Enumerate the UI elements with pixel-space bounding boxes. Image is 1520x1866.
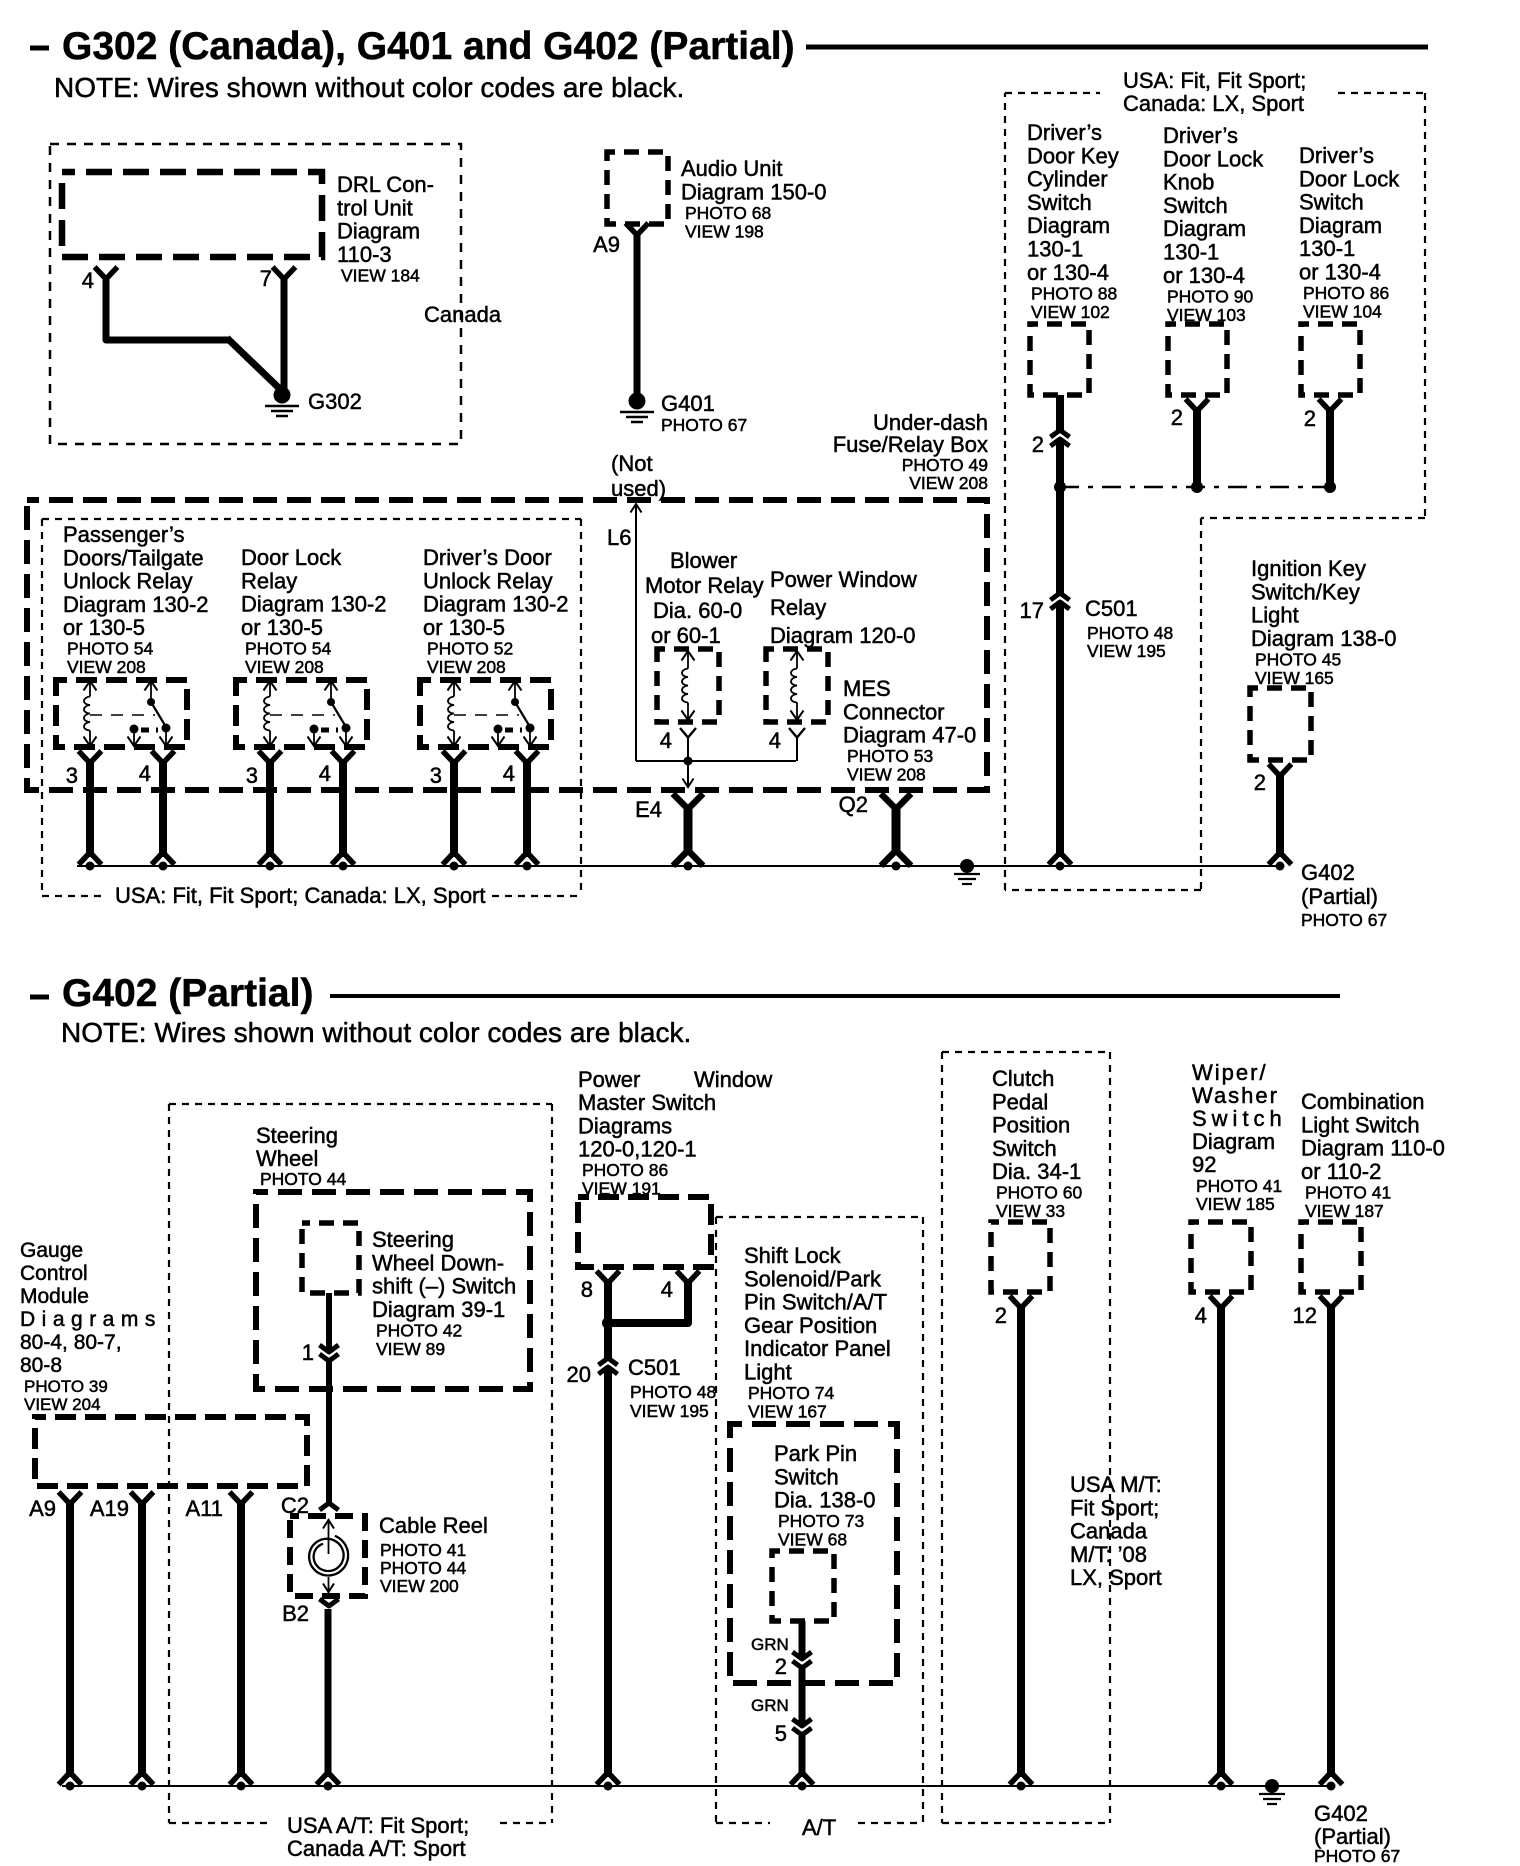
junction bottom bus A9 (66, 1782, 75, 1791)
svg-text:shift (–) Switch: shift (–) Switch (372, 1274, 516, 1299)
wire L6 from box top to blower junction (631, 504, 797, 761)
connector E4 fork and wire (675, 796, 701, 863)
svg-text:PHOTO 67: PHOTO 67 (1301, 910, 1387, 930)
wire wiper to bus (1212, 1304, 1231, 1783)
svg-text:PHOTO 45: PHOTO 45 (1255, 649, 1341, 669)
junction bottom bus park pin (798, 1782, 807, 1791)
driver's door key cylinder switch label (1027, 120, 1119, 322)
not used label (611, 451, 666, 501)
svg-text:PHOTO 86: PHOTO 86 (582, 1160, 668, 1180)
svg-text:PHOTO 39: PHOTO 39 (24, 1377, 108, 1396)
svg-text:Driver’s Door: Driver’s Door (423, 545, 552, 570)
wire C501 17 down to bus (1056, 487, 1064, 857)
steering wheel box (256, 1192, 530, 1389)
note wires black (top) (54, 72, 684, 103)
svg-text:LX, Sport: LX, Sport (1070, 1565, 1162, 1590)
svg-text:4: 4 (139, 761, 151, 786)
gauge control module U3 box (35, 1417, 307, 1486)
svg-text:Q2: Q2 (839, 792, 868, 817)
svg-text:Wiper/: Wiper/ (1192, 1060, 1268, 1085)
svg-text:Solenoid/Park: Solenoid/Park (744, 1266, 882, 1291)
svg-text:A9: A9 (593, 232, 620, 257)
junction master switch wires (602, 1317, 614, 1329)
svg-text:4: 4 (769, 728, 781, 753)
passenger's doors/tailgate unlock relay K1 (56, 680, 187, 747)
svg-text:Wheel Down-: Wheel Down- (372, 1250, 504, 1275)
svg-text:Diagram 47-0: Diagram 47-0 (843, 723, 976, 748)
wire downshift pin1 down (326, 1293, 332, 1504)
svg-text:PHOTO 52: PHOTO 52 (427, 638, 513, 658)
svg-text:VIEW 208: VIEW 208 (909, 473, 988, 493)
USA Fit Sport header (top right) (1123, 68, 1306, 116)
ground G302 (265, 387, 299, 417)
steering wheel downshift switch label (372, 1227, 516, 1359)
svg-text:PHOTO 68: PHOTO 68 (685, 203, 771, 223)
svg-text:Diagram: Diagram (1163, 216, 1246, 241)
dashed region top-right door switches (1005, 93, 1425, 890)
svg-text:Canada: LX, Sport: Canada: LX, Sport (1123, 91, 1304, 116)
svg-text:PHOTO 67: PHOTO 67 (1314, 1846, 1400, 1866)
pin 4 fork master switch (679, 1273, 698, 1282)
blower motor relay K4 label (645, 548, 764, 648)
svg-text:4: 4 (503, 761, 515, 786)
svg-text:4: 4 (661, 1277, 673, 1302)
junction bottom bus clutch (1017, 1782, 1026, 1791)
cable reel internal wire (323, 1519, 334, 1593)
steering wheel downshift switch S5 box (302, 1223, 359, 1293)
svg-text:Diagram: Diagram (1299, 213, 1382, 238)
junction bottom bus wiper (1217, 1782, 1226, 1791)
svg-text:VIEW 68: VIEW 68 (778, 1530, 847, 1550)
svg-text:120-0,120-1: 120-0,120-1 (578, 1137, 697, 1162)
fork at bus A9 (61, 1774, 80, 1783)
junction blower/L6 (684, 757, 693, 766)
svg-text:VIEW 165: VIEW 165 (1255, 668, 1334, 688)
svg-text:or 130-5: or 130-5 (241, 615, 323, 640)
fork at bus A19 (133, 1774, 152, 1783)
connector C501 label (bottom) (628, 1355, 716, 1421)
svg-text:2: 2 (775, 1654, 787, 1679)
svg-text:M/T: ’08: M/T: ’08 (1070, 1542, 1147, 1567)
svg-text:Diagrams: Diagrams (20, 1308, 162, 1331)
svg-text:Shift Lock: Shift Lock (744, 1243, 842, 1268)
svg-text:Switch: Switch (1163, 193, 1228, 218)
svg-text:G302: G302 (308, 389, 362, 414)
ground symbol on top bus (954, 859, 980, 884)
svg-text:3: 3 (66, 763, 78, 788)
svg-text:PHOTO 60: PHOTO 60 (996, 1183, 1083, 1203)
svg-text:Power: Power (578, 1067, 640, 1092)
svg-text:VIEW 103: VIEW 103 (1167, 305, 1246, 325)
svg-text:Connector: Connector (843, 699, 945, 724)
svg-text:4: 4 (1195, 1303, 1207, 1328)
pin 4 fork relay K1 (154, 753, 173, 762)
fork at bus relay K2 pin3 (261, 854, 280, 863)
svg-text:Diagram 120-0: Diagram 120-0 (770, 623, 916, 648)
MES connector label (843, 676, 976, 785)
pin 4 fork wiper (1212, 1298, 1231, 1307)
svg-text:or 130-4: or 130-4 (1027, 260, 1109, 285)
note wires black (bottom) (61, 1017, 691, 1048)
pin 5 label park pin (775, 1721, 787, 1746)
svg-text:USA: Fit, Fit Sport;: USA: Fit, Fit Sport; (1123, 68, 1306, 93)
node E4 label (635, 797, 662, 822)
svg-text:2: 2 (1304, 406, 1316, 431)
svg-text:VIEW 204: VIEW 204 (24, 1395, 101, 1414)
svg-text:Dia. 138-0: Dia. 138-0 (774, 1488, 876, 1513)
cable reel label (379, 1513, 488, 1596)
svg-text:Indicator Panel: Indicator Panel (744, 1336, 891, 1361)
svg-text:or 130-4: or 130-4 (1163, 263, 1245, 288)
svg-text:Diagram 150-0: Diagram 150-0 (681, 179, 827, 204)
svg-text:PHOTO 73: PHOTO 73 (778, 1511, 864, 1531)
svg-text:2: 2 (995, 1303, 1007, 1328)
svg-text:1: 1 (302, 1340, 314, 1365)
junction bottom bus A19 (138, 1782, 147, 1791)
Canada option dashed box (50, 144, 461, 444)
svg-text:5: 5 (775, 1721, 787, 1746)
wire DRL pin4 to G302 (106, 275, 281, 390)
pin 1 connector chevron (downshift) (320, 1345, 339, 1361)
pin 2 connector chevron (key cylinder) (1032, 430, 1070, 457)
svg-text:Driver’s: Driver’s (1163, 123, 1238, 148)
svg-text:PHOTO 54: PHOTO 54 (67, 639, 154, 659)
svg-text:VIEW 198: VIEW 198 (685, 221, 764, 241)
fork at bus relay K3 pin3 (445, 854, 464, 863)
svg-text:Master Switch: Master Switch (578, 1090, 716, 1115)
wire door lock switch pin2 down (1326, 407, 1334, 483)
power window master switch S6 box (578, 1197, 711, 1267)
svg-text:B2: B2 (282, 1601, 309, 1626)
fork at bus relay K3 pin4 (518, 854, 537, 863)
svg-text:Unlock Relay: Unlock Relay (63, 569, 193, 594)
svg-text:Dia. 60-0: Dia. 60-0 (653, 598, 742, 623)
svg-text:Passenger’s: Passenger’s (63, 522, 184, 547)
pin 2 fork door lock switch (1304, 401, 1340, 431)
svg-text:2: 2 (1171, 405, 1183, 430)
junction top bus K1 pin4 (159, 862, 168, 871)
svg-text:Knob: Knob (1163, 170, 1214, 195)
svg-text:G401: G401 (661, 391, 715, 416)
pin 4 label DRL (82, 268, 94, 293)
label USA A/T Fit Sport Canada A/T Sport (287, 1813, 469, 1861)
svg-text:Window: Window (694, 1067, 772, 1092)
svg-text:A11: A11 (185, 1496, 223, 1521)
svg-text:G402: G402 (1301, 860, 1355, 885)
dashed box USA A/T Fit Sport (169, 1104, 552, 1823)
ground bus wire (bottom section) (62, 1785, 1331, 1787)
pin 3 fork relay K2 (261, 753, 280, 762)
pin 4 fork relay K2 (334, 753, 353, 762)
fork at bus relay K1 pin4 (154, 854, 173, 863)
svg-text:VIEW 187: VIEW 187 (1305, 1201, 1384, 1221)
svg-text:VIEW 185: VIEW 185 (1196, 1194, 1275, 1214)
svg-text:VIEW 208: VIEW 208 (67, 657, 146, 677)
wire relay K3 pin4 to bus (523, 759, 531, 857)
fork at bus A11 (232, 1774, 251, 1783)
svg-text:Pedal: Pedal (992, 1089, 1048, 1114)
node G402 label (bottom) (1314, 1801, 1400, 1866)
svg-text:4: 4 (660, 728, 672, 753)
label A/T (802, 1815, 836, 1840)
svg-text:VIEW 208: VIEW 208 (847, 765, 926, 785)
svg-text:4: 4 (319, 761, 331, 786)
label USA M/T Fit Sport Canada (1070, 1472, 1162, 1590)
pin 5 chevron park pin (793, 1719, 812, 1735)
svg-text:Switch: Switch (992, 1136, 1057, 1161)
svg-text:Pin Switch/A/T: Pin Switch/A/T (744, 1290, 887, 1315)
svg-text:Doors/Tailgate: Doors/Tailgate (63, 545, 204, 570)
svg-text:Steering: Steering (372, 1227, 454, 1252)
blower motor relay K4 coil box (657, 649, 719, 722)
svg-text:130-1: 130-1 (1163, 240, 1219, 265)
driver's door unlock relay K3 label (423, 545, 569, 677)
svg-text:7: 7 (260, 266, 272, 291)
ignition key switch label (1251, 556, 1397, 688)
node L6 label (607, 525, 631, 550)
svg-text:Fuse/Relay Box: Fuse/Relay Box (833, 432, 988, 457)
svg-text:VIEW 195: VIEW 195 (630, 1401, 709, 1421)
svg-text:A/T: A/T (802, 1815, 836, 1840)
svg-text:GRN: GRN (751, 1635, 789, 1654)
svg-text:Driver’s: Driver’s (1027, 120, 1102, 145)
wire key cylinder pin2 down (1056, 395, 1064, 483)
svg-text:Diagram 130-2: Diagram 130-2 (423, 592, 569, 617)
wire color GRN label 2 (751, 1696, 789, 1715)
fork at bus relay K1 pin3 (81, 854, 100, 863)
svg-text:PHOTO 44: PHOTO 44 (260, 1169, 347, 1189)
svg-text:Door Lock: Door Lock (1299, 166, 1400, 191)
node Q2 label (839, 792, 868, 817)
junction bottom bus B2 (324, 1782, 333, 1791)
passenger's doors/tailgate unlock relay K1 label (63, 522, 209, 677)
wiper washer switch S9 box (1191, 1222, 1251, 1292)
node G302 label (308, 389, 362, 414)
svg-text:2: 2 (1254, 770, 1266, 795)
node A11 label (185, 1496, 223, 1521)
svg-text:Blower: Blower (670, 548, 737, 573)
ignition key switch S4 box (1250, 688, 1311, 760)
svg-text:PHOTO 48: PHOTO 48 (1087, 623, 1173, 643)
svg-text:PHOTO 74: PHOTO 74 (748, 1383, 835, 1403)
svg-text:C501: C501 (628, 1355, 681, 1380)
svg-text:Module: Module (20, 1285, 89, 1308)
wire A19 to bus (138, 1500, 146, 1777)
svg-text:Relay: Relay (241, 568, 297, 593)
junction bottom bus master switch (604, 1782, 613, 1791)
svg-text:110-3: 110-3 (337, 242, 392, 267)
door lock relay K2 (236, 680, 367, 747)
wire B2 to bus (319, 1609, 338, 1783)
svg-text:130-1: 130-1 (1299, 236, 1355, 261)
wire blower pin4 to E4 (683, 736, 694, 787)
junction top bus K3 pin3 (450, 862, 459, 871)
wire relay K3 pin3 to bus (450, 759, 458, 857)
fork C501 wire at bus (1051, 854, 1070, 863)
audio unit U2 box (607, 152, 668, 224)
pin A19 fork (133, 1494, 152, 1503)
svg-text:Switch: Switch (1192, 1106, 1287, 1131)
svg-text:or 130-5: or 130-5 (63, 615, 145, 640)
pin 1 label downshift (302, 1340, 314, 1365)
shift lock solenoid label (744, 1243, 891, 1422)
pin 4 fork power window relay (789, 728, 805, 738)
junction top bus C501 (1056, 862, 1065, 871)
svg-text:Unlock Relay: Unlock Relay (423, 568, 553, 593)
svg-text:Motor Relay: Motor Relay (645, 573, 764, 598)
svg-text:Audio Unit: Audio Unit (681, 156, 783, 181)
driver's door lock knob switch S2 box (1168, 324, 1227, 395)
pin 2 label ignition (1254, 770, 1266, 795)
wire audio A9 to G401 (634, 231, 641, 397)
pin 8 label master switch (581, 1277, 593, 1302)
pin 7 connector fork (275, 269, 294, 278)
svg-text:Switch/Key: Switch/Key (1251, 579, 1360, 604)
svg-text:Dia. 34-1: Dia. 34-1 (992, 1159, 1081, 1184)
svg-text:2: 2 (1032, 432, 1044, 457)
wire combination to bus (1322, 1304, 1341, 1783)
svg-text:Ignition Key: Ignition Key (1251, 556, 1366, 581)
wire A9 to bus (66, 1500, 74, 1777)
svg-text:130-1: 130-1 (1027, 237, 1083, 262)
wire power window pin4 to L6 wire (796, 736, 798, 761)
svg-text:(Not: (Not (611, 451, 653, 476)
svg-text:or 110-2: or 110-2 (1301, 1159, 1381, 1184)
svg-text:Canada A/T: Sport: Canada A/T: Sport (287, 1836, 466, 1861)
fork at bus master switch (599, 1774, 618, 1783)
svg-text:PHOTO 86: PHOTO 86 (1303, 283, 1389, 303)
svg-text:92: 92 (1192, 1152, 1216, 1177)
ground G401 (620, 393, 654, 423)
pin 4 label relay K3 (503, 761, 515, 786)
pin 4 label wiper (1195, 1303, 1207, 1328)
svg-text:PHOTO 49: PHOTO 49 (902, 455, 988, 475)
dash-dot link wire between door switch wires (1060, 486, 1330, 488)
svg-text:(Partial): (Partial) (1301, 884, 1378, 909)
cable reel box (290, 1516, 365, 1596)
pin 2 chevron park pin (793, 1652, 812, 1668)
pin A9 audio fork (628, 225, 647, 234)
pin 4 label master switch (661, 1277, 673, 1302)
svg-text:3: 3 (246, 763, 258, 788)
under-dash fuse/relay box label (833, 410, 988, 493)
pin 8 fork master switch (599, 1273, 618, 1282)
svg-text:80-4, 80-7,: 80-4, 80-7, (20, 1331, 122, 1354)
svg-text:VIEW 184: VIEW 184 (341, 265, 420, 285)
pin 3 label relay K2 (246, 763, 258, 788)
svg-text:Clutch: Clutch (992, 1066, 1054, 1091)
pin 4 label relay K1 (139, 761, 151, 786)
svg-text:PHOTO 88: PHOTO 88 (1031, 283, 1117, 303)
svg-text:E4: E4 (635, 797, 662, 822)
svg-text:Switch: Switch (1027, 190, 1092, 215)
svg-text:L6: L6 (607, 525, 631, 550)
inner box label USA Fit Sport Canada LX Sport (115, 883, 486, 908)
svg-text:VIEW 102: VIEW 102 (1031, 302, 1110, 322)
DRL control unit U1 box (62, 172, 322, 257)
wire relay K1 pin3 to bus (86, 759, 94, 857)
steering wheel label (256, 1123, 347, 1189)
svg-text:or 60-1: or 60-1 (651, 623, 721, 648)
svg-text:Canada: Canada (424, 302, 502, 327)
svg-text:Steering: Steering (256, 1123, 338, 1148)
svg-text:4: 4 (82, 268, 94, 293)
node Canada label (424, 302, 502, 327)
svg-text:GRN: GRN (751, 1696, 789, 1715)
svg-text:trol Unit: trol Unit (337, 195, 413, 220)
connector C501 pin 17 chevron (1020, 593, 1070, 623)
junction top bus Q2 (892, 862, 901, 871)
connector B2 chevron (320, 1599, 339, 1606)
pin 3 fork relay K3 (445, 753, 464, 762)
pin 12 fork combination (1322, 1298, 1341, 1307)
pin A9 fork (61, 1494, 80, 1503)
svg-text:or 130-4: or 130-4 (1299, 260, 1381, 285)
park pin switch label (774, 1441, 876, 1550)
svg-text:Light: Light (1251, 603, 1299, 628)
svg-text:VIEW 195: VIEW 195 (1087, 641, 1166, 661)
svg-text:Door Lock: Door Lock (1163, 146, 1264, 171)
svg-text:17: 17 (1020, 598, 1044, 623)
svg-text:PHOTO 54: PHOTO 54 (245, 638, 332, 658)
cable reel spiral (309, 1536, 348, 1576)
svg-text:PHOTO 67: PHOTO 67 (661, 415, 747, 435)
svg-text:3: 3 (430, 763, 442, 788)
wire relay K2 pin3 to bus (266, 759, 274, 857)
svg-text:NOTE: Wires shown without colo: NOTE: Wires shown without color codes ar… (61, 1017, 691, 1048)
svg-text:VIEW 208: VIEW 208 (427, 657, 506, 677)
wire park pin down (799, 1621, 806, 1777)
svg-text:USA M/T:: USA M/T: (1070, 1472, 1162, 1497)
svg-text:Diagram: Diagram (1192, 1129, 1275, 1154)
pin 4 label relay K2 (319, 761, 331, 786)
svg-text:Park Pin: Park Pin (774, 1441, 857, 1466)
wire master switch pin4 corner (612, 1279, 688, 1323)
combination light switch label (1301, 1089, 1445, 1221)
pin 2 fork knob switch (1171, 401, 1207, 430)
junction top bus K2 pin3 (266, 862, 275, 871)
svg-text:DRL Con-: DRL Con- (337, 172, 434, 197)
wire ignition pin2 to bus (1271, 772, 1290, 863)
svg-text:Power Window: Power Window (770, 567, 917, 592)
driver's door lock knob switch label (1163, 123, 1264, 325)
svg-text:VIEW 167: VIEW 167 (748, 1402, 827, 1422)
svg-text:PHOTO 48: PHOTO 48 (630, 1382, 716, 1402)
wire DRL pin7 to G302 (281, 275, 288, 392)
svg-text:Combination: Combination (1301, 1089, 1425, 1114)
svg-text:A19: A19 (90, 1496, 129, 1521)
svg-text:Cylinder: Cylinder (1027, 167, 1108, 192)
node G401 label (661, 391, 747, 435)
park pin switch S7 box (772, 1551, 834, 1621)
door lock relay K2 label (241, 545, 387, 677)
under-dash fuse/relay box outline (27, 500, 987, 790)
svg-text:Diagram: Diagram (337, 219, 420, 244)
wiper washer switch label (1192, 1060, 1287, 1214)
driver's door key cylinder switch S1 box (1030, 324, 1089, 395)
title G302 (Canada), G401 and G402 (Partial) (30, 25, 1428, 68)
node A9 label (29, 1496, 56, 1521)
svg-text:Light Switch: Light Switch (1301, 1112, 1420, 1137)
junction top bus ignition (1276, 862, 1285, 871)
wire clutch to bus (1012, 1304, 1031, 1783)
svg-text:Washer: Washer (1192, 1083, 1279, 1108)
svg-text:Diagram 138-0: Diagram 138-0 (1251, 626, 1397, 651)
svg-text:G302 (Canada), G401 and G402 (: G302 (Canada), G401 and G402 (Partial) (62, 25, 795, 68)
svg-text:Diagram 39-1: Diagram 39-1 (372, 1297, 505, 1322)
driver's door lock switch label (1299, 143, 1400, 322)
gauge control module label (20, 1239, 162, 1414)
